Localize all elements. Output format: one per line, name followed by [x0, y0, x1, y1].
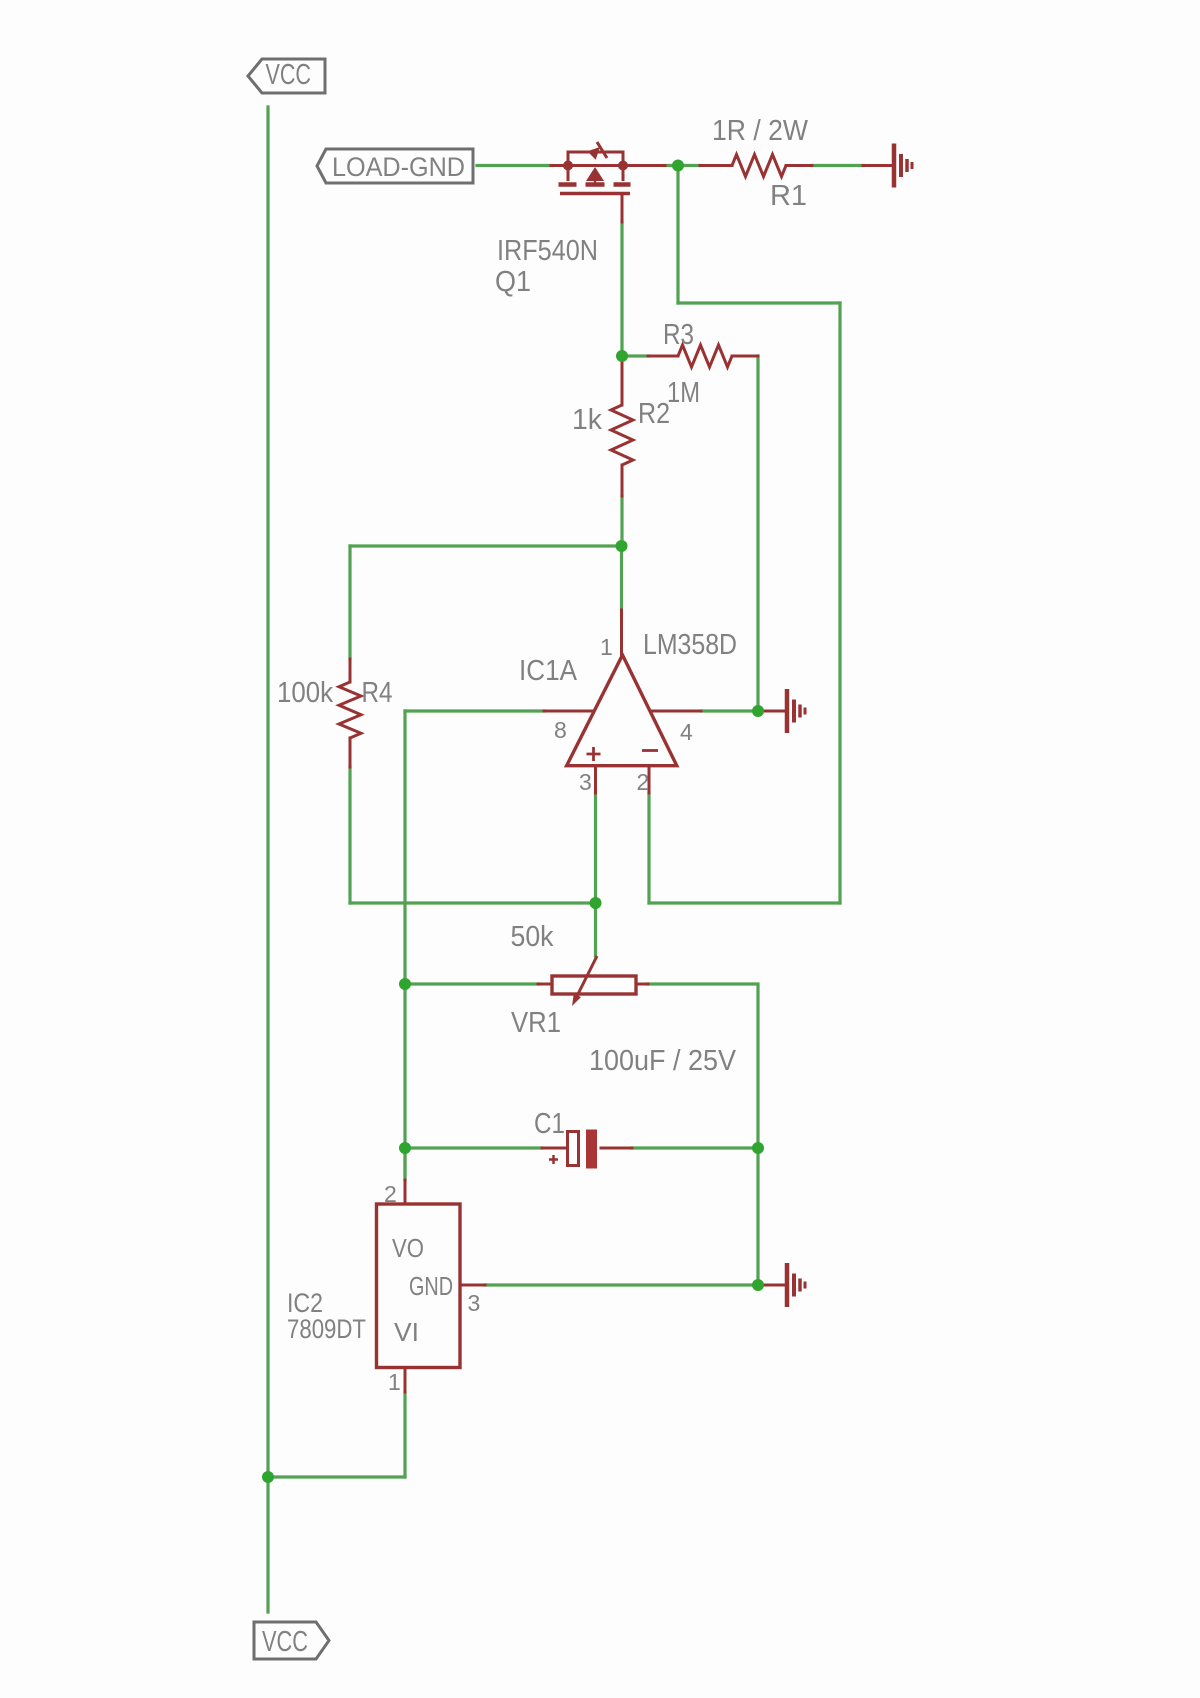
svg-text:1k: 1k	[572, 404, 602, 436]
pin 2 stub IC2 VO	[404, 1180, 407, 1204]
wire pin8 horizontal	[405, 709, 544, 712]
wire feedback to pin2	[647, 793, 650, 903]
svg-text:7809DT: 7809DT	[287, 1314, 366, 1344]
wire drain node down	[676, 166, 679, 304]
svg-text:VI: VI	[394, 1317, 419, 1347]
node IC2 gnd junction	[752, 1279, 764, 1291]
flag VCC top	[248, 59, 325, 93]
wire R4 bottom lead	[349, 738, 352, 767]
node gnd junction pin4	[752, 705, 764, 717]
wire IC2 GND pin to gnd junction	[485, 1283, 758, 1286]
wire R2 bottom to output node	[620, 496, 623, 546]
pin 1 stub IC2 VI	[404, 1368, 407, 1392]
wire R1 right lead	[786, 164, 812, 167]
svg-text:1: 1	[600, 634, 613, 660]
svg-text:VO: VO	[392, 1233, 424, 1263]
wire output node to pin1 stub	[620, 546, 623, 610]
transistor Q1 body arrow	[586, 167, 604, 181]
node C1 left junction	[399, 1142, 411, 1154]
resistor R4 zigzag	[339, 682, 361, 738]
potentiometer VR1 wiper arrow	[572, 956, 597, 1006]
op-amp minus mark	[642, 749, 658, 752]
transistor Q1 terminal dots	[563, 161, 573, 171]
wire output node horizontal	[350, 544, 622, 547]
node pin3 junction	[590, 897, 602, 909]
wire gnd stub at pin4	[758, 710, 784, 713]
pin 1 stub IC1A	[620, 610, 623, 656]
svg-text:C1: C1	[534, 1108, 565, 1140]
svg-text:VR1: VR1	[511, 1007, 561, 1039]
wire 9V supply vertical	[403, 711, 406, 1180]
wire VR1 left lead	[538, 983, 552, 986]
wire C1 left lead	[542, 1147, 567, 1150]
node output junction	[616, 540, 628, 552]
wire C1 right to gnd rail	[632, 1146, 758, 1149]
svg-text:Q1: Q1	[495, 266, 531, 298]
wire R1 left lead	[700, 164, 732, 167]
svg-text:50k: 50k	[511, 921, 554, 953]
wire VR1 right to gnd rail	[648, 984, 758, 1148]
ground G1 (at R1)	[894, 144, 912, 188]
wire pin4 to gnd junction	[701, 709, 758, 712]
wire gate node to R3	[622, 354, 648, 357]
wire Q1 source to R1	[665, 164, 700, 167]
wire R2 bottom lead	[621, 465, 624, 496]
wire VI to VCC rail	[268, 1475, 405, 1478]
node C1 right junction	[752, 1142, 764, 1154]
ground G2 (at op-amp pin4)	[787, 689, 805, 733]
wire feedback bottom horizontal	[649, 901, 840, 904]
wire pin3 vertical	[594, 793, 597, 903]
svg-text:1R / 2W: 1R / 2W	[712, 115, 809, 147]
wire IC2 VI pin down	[403, 1392, 406, 1477]
wire output node down to R4	[348, 546, 351, 659]
flag LOAD-GND	[317, 149, 473, 183]
FLAGS	[248, 59, 473, 1659]
wire R3 left lead	[648, 355, 678, 358]
op-amp plus mark	[587, 747, 601, 761]
svg-text:3: 3	[468, 1290, 481, 1316]
wire LOAD-GND flag to Q1 drain	[477, 164, 551, 167]
RED-STUBS	[350, 166, 891, 1393]
capacitor C1 plus mark	[549, 1155, 558, 1164]
svg-text:LOAD-GND: LOAD-GND	[332, 152, 465, 182]
svg-text:R3: R3	[663, 319, 694, 351]
wire R4 bottom down	[348, 767, 351, 903]
wire pin3 node to VR1 wiper	[594, 903, 597, 956]
wire IC2 VO pin up	[403, 1148, 406, 1180]
wire supply to C1 left	[405, 1146, 542, 1149]
wire feedback right vertical	[838, 303, 841, 903]
svg-text:LM358D: LM358D	[643, 629, 737, 661]
svg-text:8: 8	[554, 717, 567, 743]
wire supply to VR1 left	[405, 982, 538, 985]
wire Q1 gate lead	[621, 194, 624, 223]
potentiometer VR1 body	[552, 976, 636, 994]
svg-text:3: 3	[579, 769, 592, 795]
pin 4 stub IC1A	[651, 710, 701, 713]
wire R1 to ground stub	[812, 164, 863, 167]
svg-text:IC1A: IC1A	[519, 655, 578, 687]
node VCC rail junction	[262, 1471, 274, 1483]
svg-text:1: 1	[388, 1369, 401, 1395]
svg-text:100k: 100k	[277, 677, 333, 709]
pin 2 stub IC1A	[648, 766, 651, 793]
node gate junction	[616, 350, 628, 362]
svg-text:VCC: VCC	[262, 1626, 308, 1658]
pin 3 stub IC1A	[594, 766, 597, 793]
transistor Q1 body diode	[587, 142, 607, 160]
op-amp U1 IC1A triangle	[567, 655, 677, 766]
svg-text:VCC: VCC	[266, 59, 312, 91]
svg-text:R1: R1	[770, 180, 807, 212]
wire VCC rail left vertical	[266, 107, 269, 1612]
svg-text:GND: GND	[409, 1271, 453, 1301]
resistor R3 zigzag	[678, 345, 732, 367]
ground G3 (at IC2)	[787, 1263, 805, 1307]
pin 3 stub IC2 GND	[460, 1284, 485, 1287]
node drain junction	[672, 160, 684, 172]
wire feedback top horizontal	[678, 301, 840, 304]
wire R2 top lead	[621, 358, 624, 405]
flag VCC bottom	[254, 1622, 329, 1659]
wire R3 right lead	[732, 355, 758, 358]
transistor Q1 MOSFET body	[559, 152, 631, 194]
resistor R1 zigzag	[732, 155, 786, 177]
wire gnd stub at IC2	[758, 1284, 784, 1287]
svg-text:100uF / 25V: 100uF / 25V	[589, 1045, 737, 1077]
svg-text:1M: 1M	[667, 377, 700, 409]
wire bottom-left horizontal to pin3 node	[350, 901, 596, 904]
node VR1 left junction	[399, 978, 411, 990]
wire VR1 right lead	[636, 983, 648, 986]
wire gnd rail C1 to IC2	[756, 1148, 759, 1285]
svg-text:R4: R4	[362, 677, 393, 709]
pin 8 stub IC1A	[544, 710, 594, 713]
capacitor C1 negative plate	[586, 1130, 597, 1169]
wire R4 top lead	[349, 659, 352, 682]
resistor R2 zigzag	[611, 405, 633, 465]
wire C1 right lead	[601, 1147, 632, 1150]
svg-text:2: 2	[637, 769, 650, 795]
capacitor C1 positive plate	[568, 1132, 579, 1166]
svg-text:4: 4	[680, 719, 693, 745]
svg-text:2: 2	[384, 1181, 397, 1207]
svg-text:R2: R2	[638, 398, 670, 430]
regulator IC2 body	[377, 1204, 461, 1368]
wire R1 gnd stub	[863, 164, 891, 167]
wire Q1 channel horizontal	[551, 164, 665, 167]
svg-text:IRF540N: IRF540N	[497, 235, 598, 267]
wire R3 right down to gnd node	[756, 356, 759, 711]
wire gate vertical	[620, 222, 623, 356]
